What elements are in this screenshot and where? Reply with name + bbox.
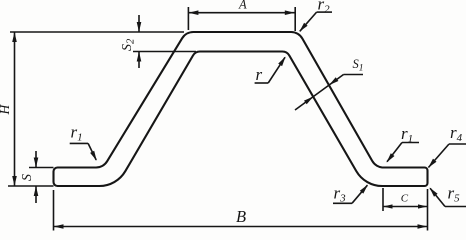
svg-text:r5: r5 bbox=[448, 184, 461, 205]
extension line S2 lower bbox=[133, 51, 196, 53]
label r4 underline bbox=[449, 143, 466, 145]
S arrow top bbox=[35, 151, 37, 168]
leader r4 bbox=[428, 144, 449, 168]
S2 arrow top bbox=[138, 15, 140, 32]
trapezoidal sheet profile outline bbox=[54, 32, 428, 186]
svg-text:S1: S1 bbox=[353, 57, 364, 74]
C dimension line bbox=[383, 206, 428, 208]
extension line B left bbox=[53, 190, 55, 231]
label r5 underline bbox=[445, 206, 466, 208]
S1 leader line bbox=[295, 75, 344, 111]
extension line A left bbox=[187, 7, 189, 30]
A dimension line bbox=[188, 12, 294, 14]
svg-text:r3: r3 bbox=[334, 184, 347, 205]
extension line bottom (H / S lower) bbox=[8, 185, 54, 187]
S arrow bottom bbox=[35, 186, 37, 203]
svg-text:C: C bbox=[401, 193, 409, 205]
svg-text:S2: S2 bbox=[120, 38, 136, 51]
svg-text:r4: r4 bbox=[450, 123, 463, 144]
leader r2 bbox=[300, 12, 317, 31]
label r2 underline bbox=[317, 11, 332, 13]
leader r3 bbox=[352, 185, 367, 203]
svg-text:S: S bbox=[20, 174, 35, 181]
extension line C left bbox=[382, 188, 384, 211]
label r1 left underline bbox=[70, 142, 88, 144]
label r3 underline bbox=[333, 202, 352, 204]
leader r5 bbox=[430, 188, 445, 206]
svg-text:r1: r1 bbox=[71, 123, 83, 144]
S2 arrow bottom bbox=[138, 52, 140, 69]
svg-text:r1: r1 bbox=[401, 124, 413, 145]
svg-text:H: H bbox=[0, 104, 12, 116]
extension line S upper bbox=[29, 167, 54, 169]
svg-text:r: r bbox=[256, 65, 263, 84]
leader r1 right bbox=[387, 143, 402, 162]
extension line B right bbox=[427, 189, 429, 231]
svg-text:B: B bbox=[236, 207, 246, 226]
svg-text:r2: r2 bbox=[318, 0, 331, 16]
leader r1 left bbox=[88, 143, 96, 160]
svg-text:A: A bbox=[238, 0, 247, 11]
label r underline bbox=[255, 82, 269, 84]
B dimension line bbox=[54, 226, 428, 228]
label S1 underline bbox=[344, 74, 364, 76]
leader r bbox=[268, 57, 285, 83]
extension line top (H / S2 upper) bbox=[10, 31, 184, 33]
label r1 right underline bbox=[402, 142, 419, 144]
extension line A right bbox=[294, 7, 296, 31]
H dimension line bbox=[14, 32, 16, 186]
